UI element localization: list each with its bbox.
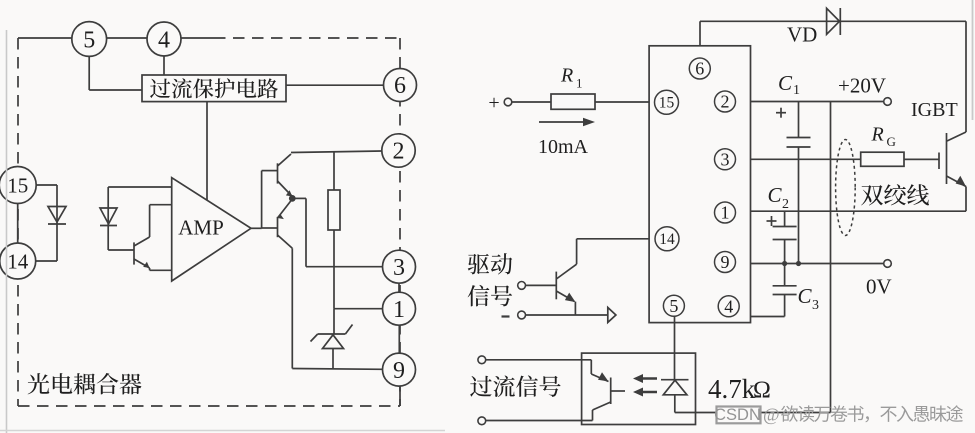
svg-text:+: +	[488, 92, 499, 114]
svg-text:2: 2	[782, 197, 789, 212]
svg-text:R: R	[560, 65, 573, 87]
svg-text:1: 1	[393, 297, 405, 323]
svg-text:VD: VD	[787, 23, 817, 47]
svg-text:15: 15	[7, 174, 28, 198]
svg-text:2: 2	[393, 139, 405, 165]
svg-text:6: 6	[394, 73, 406, 99]
svg-text:C: C	[768, 183, 783, 207]
svg-text:9: 9	[721, 252, 730, 272]
svg-text:CSDN: CSDN	[714, 406, 761, 424]
svg-text:1: 1	[793, 83, 800, 98]
svg-text:+20V: +20V	[838, 74, 886, 98]
svg-text:1: 1	[721, 203, 730, 223]
svg-text:4: 4	[158, 28, 170, 54]
svg-text:14: 14	[659, 231, 675, 248]
svg-text:C: C	[778, 71, 793, 95]
svg-text:5: 5	[83, 28, 95, 54]
svg-text:5: 5	[669, 296, 678, 316]
svg-text:14: 14	[7, 250, 29, 274]
svg-text:3: 3	[393, 255, 405, 281]
svg-text:10mA: 10mA	[538, 136, 589, 158]
svg-text:IGBT: IGBT	[911, 99, 958, 121]
svg-text:R: R	[871, 124, 884, 146]
svg-text:G: G	[887, 134, 896, 149]
svg-text:6: 6	[695, 59, 704, 79]
svg-text:AMP: AMP	[178, 216, 224, 240]
svg-text:C: C	[798, 284, 813, 308]
svg-text:9: 9	[393, 358, 405, 384]
svg-text:2: 2	[721, 92, 730, 112]
svg-text:@: @	[763, 405, 780, 425]
svg-text:3: 3	[812, 298, 819, 313]
svg-text:0V: 0V	[866, 275, 892, 299]
svg-text:3: 3	[721, 149, 730, 169]
svg-text:1: 1	[576, 76, 583, 91]
svg-text:4.7k: 4.7k	[708, 374, 756, 404]
svg-text:4: 4	[724, 296, 733, 316]
svg-text:15: 15	[659, 95, 675, 112]
svg-text:Ω: Ω	[753, 378, 771, 404]
